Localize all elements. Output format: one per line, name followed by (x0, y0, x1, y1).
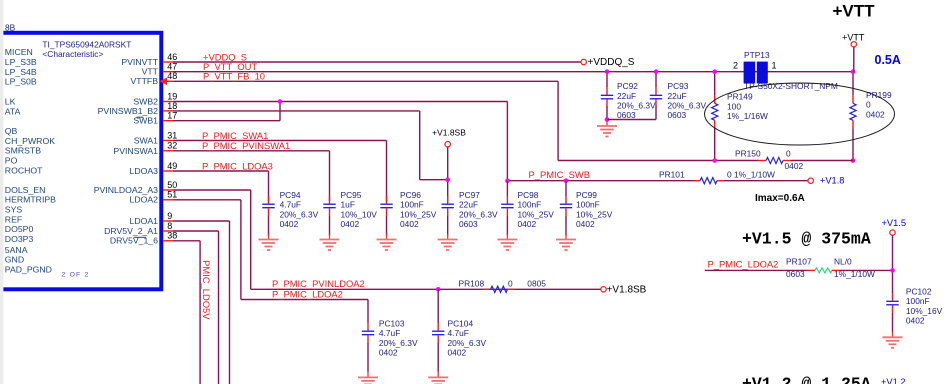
ground under PC97 (438, 234, 458, 250)
svg-text:DOLS_EN: DOLS_EN (5, 185, 46, 195)
resistor PR101 (694, 180, 700, 182)
svg-text:0402: 0402 (448, 348, 467, 358)
wire net P_PMIC_PVINLDOA2 pin 50 (164, 189, 174, 191)
svg-text:0402: 0402 (518, 219, 537, 229)
port +V1.8SB (601, 287, 606, 292)
svg-text:51: 51 (167, 190, 177, 200)
ground under PC92 (597, 120, 617, 136)
svg-text:P_PMIC_LDOA2: P_PMIC_LDOA2 (272, 288, 343, 299)
svg-text:PC93: PC93 (668, 81, 689, 91)
svg-text:4.7uF: 4.7uF (280, 200, 301, 210)
svg-text:20%_6.3V: 20%_6.3V (448, 338, 487, 348)
power flag +V1.5 (890, 230, 895, 235)
svg-text:PTP13: PTP13 (744, 50, 770, 60)
wire net P_PMIC_SWA1 pin 31 (164, 140, 174, 142)
svg-text:LP_S0B: LP_S0B (5, 77, 37, 87)
capacitor PC104 (437, 289, 439, 323)
svg-text:1%_1/16W: 1%_1/16W (727, 111, 768, 121)
svg-text:PR149: PR149 (727, 92, 753, 102)
svg-text:PC96: PC96 (400, 190, 421, 200)
svg-text:PC104: PC104 (448, 319, 474, 329)
svg-text:GND: GND (5, 255, 24, 265)
ground under PC95 (320, 234, 340, 250)
test point PTP13 (744, 62, 756, 84)
svg-text:31: 31 (167, 130, 177, 140)
port +V1.8 (808, 178, 813, 183)
svg-text:0805: 0805 (527, 279, 546, 289)
svg-text:PC103: PC103 (379, 319, 405, 329)
svg-text:+V1.8SB: +V1.8SB (607, 285, 647, 296)
svg-text:+V1.5 @ 375mA: +V1.5 @ 375mA (742, 229, 871, 248)
port +VDDQ_S (581, 59, 586, 64)
resistor PR107 (807, 269, 815, 271)
svg-text:PC92: PC92 (617, 81, 638, 91)
junction +V1.5/PC102 (890, 268, 895, 273)
svg-text:P_PMIC_LDOA3: P_PMIC_LDOA3 (202, 160, 273, 171)
svg-text:2 OF 2: 2 OF 2 (62, 272, 90, 279)
svg-text:10%_16V: 10%_16V (906, 306, 943, 316)
wire net +VDDQ_S pin 46 (164, 61, 174, 63)
wire net PVINSWB1_B2 pin 18 to +V1.8SB (164, 110, 174, 112)
svg-text:PR101: PR101 (659, 169, 685, 179)
svg-text:P_PMIC_SWB: P_PMIC_SWB (529, 169, 590, 180)
junction PC98 (505, 178, 510, 183)
svg-text:Imax=0.6A: Imax=0.6A (755, 193, 805, 204)
svg-text:0402: 0402 (906, 316, 925, 326)
svg-text:DO5P0: DO5P0 (5, 224, 34, 234)
svg-text:0402: 0402 (280, 219, 299, 229)
svg-text:REF: REF (5, 214, 22, 224)
svg-text:+V1.8: +V1.8 (820, 176, 845, 186)
svg-text:0.5A: 0.5A (875, 53, 901, 67)
capacitor PC99 (565, 181, 567, 196)
port +V1.8SB flag (445, 142, 450, 147)
svg-text:LDOA3: LDOA3 (130, 166, 159, 176)
svg-text:38: 38 (167, 231, 177, 241)
svg-text:PR150: PR150 (735, 148, 761, 158)
svg-text:PC98: PC98 (518, 190, 539, 200)
svg-text:QB: QB (5, 126, 18, 136)
svg-text:100: 100 (727, 101, 741, 111)
svg-text:20%_6.3V: 20%_6.3V (617, 101, 656, 111)
wire net P_PMIC_LDOA2 to PR107 (705, 269, 807, 271)
ground under PC103 (358, 372, 378, 384)
capacitor PC103 (362, 323, 374, 344)
svg-text:P_PMIC_LDOA2: P_PMIC_LDOA2 (708, 258, 779, 269)
capacitor PC94 (262, 196, 274, 217)
svg-text:+V1.5: +V1.5 (882, 218, 907, 228)
junction PC104 (436, 287, 441, 292)
wire net P_PMIC_LDOA3 pin 49 (164, 170, 174, 172)
capacitor PC92 (606, 72, 608, 87)
ground under PC99 (556, 234, 576, 250)
wire net DRV5V_2_A1 pin 8 (164, 230, 174, 232)
wire net P_VTT_OUT pin 47 (164, 71, 174, 73)
power flag +VTT (851, 42, 856, 47)
svg-text:LDOA1: LDOA1 (130, 216, 159, 226)
svg-text:PC95: PC95 (341, 190, 362, 200)
wire net P_PMIC_SWB pins 19/17 (164, 101, 174, 103)
resistor PR149 (714, 72, 716, 96)
svg-text:SMRSTB: SMRSTB (5, 146, 41, 156)
svg-text:PR108: PR108 (459, 279, 485, 289)
svg-text:4.7uF: 4.7uF (379, 328, 400, 338)
svg-text:SWA1: SWA1 (134, 136, 158, 146)
svg-text:0402: 0402 (400, 219, 419, 229)
svg-text:+V1.2 @ 1.25A: +V1.2 @ 1.25A (742, 374, 871, 384)
svg-text:PVINLDOA2_A3: PVINLDOA2_A3 (94, 185, 158, 195)
svg-text:0 1%_1/10W: 0 1%_1/10W (727, 169, 775, 179)
svg-text:P_VTT_FB_10: P_VTT_FB_10 (203, 71, 265, 82)
ellipse annotation (705, 83, 895, 145)
svg-text:49: 49 (167, 161, 177, 171)
svg-text:10%_25V: 10%_25V (400, 209, 437, 219)
svg-text:10%_25V: 10%_25V (576, 209, 613, 219)
wire net P_PMIC_LDOA2 pin 51 (164, 199, 174, 201)
svg-text:0402: 0402 (785, 161, 804, 171)
svg-text:100nF: 100nF (518, 200, 542, 210)
svg-text:47: 47 (167, 62, 177, 72)
svg-text:LK: LK (5, 97, 16, 107)
svg-text:0402: 0402 (341, 219, 360, 229)
svg-text:PVINSWA1: PVINSWA1 (113, 146, 158, 156)
svg-text:P_PMIC_PVINSWA1: P_PMIC_PVINSWA1 (202, 140, 290, 151)
svg-text:0: 0 (866, 100, 871, 110)
svg-text:32: 32 (167, 141, 177, 151)
svg-text:PC99: PC99 (576, 190, 597, 200)
svg-text:0402: 0402 (379, 348, 398, 358)
junction PC99 (564, 178, 569, 183)
svg-text:+VDDQ_S: +VDDQ_S (588, 57, 635, 68)
svg-text:48: 48 (167, 71, 177, 81)
svg-text:VTT: VTT (142, 67, 159, 77)
svg-text:0: 0 (786, 148, 791, 158)
svg-text:PAD_PGND: PAD_PGND (5, 264, 52, 274)
svg-text:50: 50 (167, 180, 177, 190)
svg-text:22uF: 22uF (668, 91, 687, 101)
svg-text:DO3P3: DO3P3 (5, 234, 34, 244)
svg-text:17: 17 (167, 111, 177, 121)
svg-text:+V1.8SB: +V1.8SB (432, 127, 466, 137)
wire net LDOA1 pin 9 (164, 220, 174, 222)
svg-text:20%_6.3V: 20%_6.3V (459, 209, 498, 219)
svg-text:HERMTRIPB: HERMTRIPB (5, 195, 56, 205)
svg-text:0: 0 (508, 279, 513, 289)
svg-text:8: 8 (167, 221, 172, 231)
wire net PMIC_LDO5V pin 38 (164, 240, 174, 242)
svg-text:LDOA2: LDOA2 (130, 195, 159, 205)
ground under PC96 (377, 234, 397, 250)
svg-text:9: 9 (167, 211, 172, 221)
junction +V1.8SB / PC97 (445, 177, 450, 182)
svg-text:PC94: PC94 (280, 190, 301, 200)
svg-text:+VTT: +VTT (833, 1, 876, 20)
capacitor PC98 (506, 181, 508, 196)
resistor PR108 (483, 288, 491, 290)
wire net P_PMIC_PVINSWA1 pin 32 (164, 150, 174, 152)
capacitor PC95 (323, 196, 335, 217)
ground under PC102 (883, 332, 903, 348)
svg-text:20%_6.3V: 20%_6.3V (280, 209, 319, 219)
svg-text:NL/0: NL/0 (834, 257, 852, 267)
svg-text:ROCHOT: ROCHOT (5, 165, 43, 175)
svg-text:0603: 0603 (617, 110, 636, 120)
svg-text:PR199: PR199 (866, 90, 892, 100)
svg-text:18: 18 (167, 101, 177, 111)
capacitor PC96 (380, 196, 392, 217)
svg-text:46: 46 (167, 52, 177, 62)
svg-text:1%_1/10W: 1%_1/10W (834, 269, 875, 279)
svg-text:0603: 0603 (459, 219, 478, 229)
svg-text:0402: 0402 (866, 109, 885, 119)
svg-text:+V1.2: +V1.2 (881, 377, 906, 384)
svg-text:PVINSWB1_B2: PVINSWB1_B2 (98, 106, 159, 116)
svg-text:PVINVTT: PVINVTT (121, 57, 158, 67)
svg-text:22uF: 22uF (617, 91, 636, 101)
svg-text:DRV5V_2_A1: DRV5V_2_A1 (104, 226, 158, 236)
svg-text:<Characteristic>: <Characteristic> (42, 49, 103, 59)
svg-text:4.7uF: 4.7uF (448, 328, 469, 338)
svg-text:PO: PO (5, 156, 18, 166)
svg-text:LP_S3B: LP_S3B (5, 57, 37, 67)
ground under PC94 (259, 234, 279, 250)
svg-text:22uF: 22uF (459, 200, 478, 210)
svg-text:0402: 0402 (576, 219, 595, 229)
svg-text:2: 2 (733, 60, 738, 70)
page edge strip (0, 0, 3, 384)
capacitor PC97 (442, 196, 454, 217)
svg-text:LP_S4B: LP_S4B (5, 67, 37, 77)
svg-text:VTTFB: VTTFB (130, 76, 158, 86)
svg-text:20%_6.3V: 20%_6.3V (379, 338, 418, 348)
svg-text:100nF: 100nF (400, 200, 424, 210)
capacitor PC93 (655, 72, 657, 87)
svg-text:CH_PWROK: CH_PWROK (5, 136, 55, 146)
svg-text:10%_10V: 10%_10V (341, 209, 378, 219)
junction SWB2/SWB1 (278, 99, 283, 104)
svg-text:MICEN: MICEN (5, 47, 33, 57)
svg-text:0603: 0603 (668, 110, 687, 120)
svg-text:100nF: 100nF (576, 200, 600, 210)
svg-text:PC97: PC97 (459, 190, 480, 200)
svg-text:10%_25V: 10%_25V (518, 209, 555, 219)
ground under PC104 (428, 372, 448, 384)
ground under PC98 (497, 234, 517, 250)
svg-text:0603: 0603 (786, 269, 805, 279)
svg-text:100nF: 100nF (906, 296, 930, 306)
svg-text:1uF: 1uF (341, 200, 355, 210)
svg-text:PR107: PR107 (786, 257, 812, 267)
op-amp U1: PMIC IC box TI_TPS650942A0RSKT (0, 33, 161, 290)
svg-text:1: 1 (772, 60, 777, 70)
capacitor PC102 (886, 293, 898, 314)
svg-text:PMIC_LDO5V: PMIC_LDO5V (201, 260, 212, 320)
wire net P_VTT_FB_10 pin 48 (159, 78, 167, 86)
svg-text:TI_TPS650942A0RSKT: TI_TPS650942A0RSKT (42, 39, 131, 49)
svg-text:SYS: SYS (5, 205, 23, 215)
resistor PR150 (758, 160, 766, 162)
svg-text:20%_6.3V: 20%_6.3V (668, 101, 707, 111)
svg-text:PC102: PC102 (906, 287, 932, 297)
svg-text:ATA: ATA (5, 107, 21, 117)
resistor PR199 (852, 72, 854, 96)
svg-text:+VTT: +VTT (842, 32, 865, 42)
